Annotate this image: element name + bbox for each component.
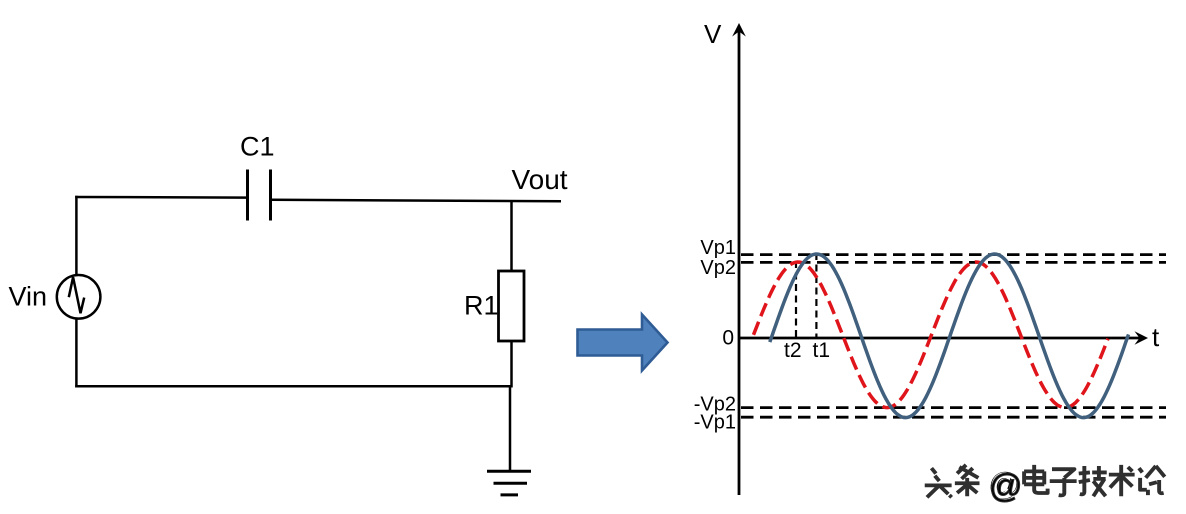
svg-text:@: @ [989, 467, 1023, 504]
capacitor C1 [248, 170, 271, 221]
big blue arrow [578, 315, 668, 371]
curve output sine Vout (blue solid) [770, 254, 1129, 418]
svg-text:Vp1: Vp1 [700, 237, 736, 259]
marker line t1 (dashed vertical at blue peak) [815, 253, 817, 338]
axis V arrowhead [732, 23, 746, 37]
source Vin (sine source circle) [57, 275, 101, 319]
svg-text:t1: t1 [813, 339, 831, 362]
svg-text:Vout: Vout [512, 164, 568, 195]
svg-text:t: t [1152, 322, 1160, 352]
svg-text:C1: C1 [240, 132, 275, 162]
gridline Vp1 (dashed) [741, 253, 1166, 256]
svg-text:t2: t2 [784, 339, 802, 362]
wire R1 to bottom rail [510, 341, 513, 388]
wire left vertical lower (Vin to bottom rail) [75, 319, 78, 388]
wire bottom horizontal rail [75, 385, 511, 388]
curve input sine Vin (red dashed) [754, 262, 1109, 408]
svg-text:R1: R1 [464, 291, 499, 321]
watermark 头条 @电子技术论 [923, 463, 1165, 504]
svg-text:V: V [704, 19, 722, 49]
resistor R1 [499, 271, 525, 341]
axis t arrowhead [1135, 331, 1149, 345]
axis t (horizontal) [739, 337, 1140, 340]
gridline -Vp1 (dashed) [741, 416, 1166, 419]
gridline Vp2 (dashed) [741, 261, 1166, 264]
svg-text:Vp2: Vp2 [700, 257, 736, 279]
axis V (vertical) [738, 31, 741, 495]
svg-text:0: 0 [722, 327, 734, 350]
marker line t2 (dashed vertical at red peak) [795, 261, 797, 338]
wire left vertical upper (top wire to Vin source) [75, 196, 78, 276]
svg-text:Vin: Vin [9, 282, 48, 312]
svg-text:-Vp1: -Vp1 [694, 412, 736, 434]
gridline -Vp2 (dashed) [741, 406, 1166, 409]
ground symbol [487, 471, 531, 495]
wire ground stem [509, 386, 512, 471]
wire top-right horizontal (C1 to Vout node) [272, 200, 562, 201]
wire top-left horizontal (Vin to C1) [75, 196, 246, 199]
wire Vout node down to R1 [510, 200, 513, 272]
